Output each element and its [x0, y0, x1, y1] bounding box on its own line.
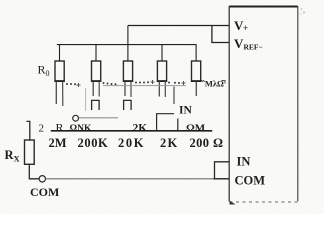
- wire COM rail to box: [46, 178, 230, 180]
- svg-text:IN: IN: [179, 105, 192, 117]
- resistor R03 body: [123, 61, 132, 81]
- resistor R04 body: [157, 61, 166, 81]
- resistor R05 body: [192, 61, 201, 81]
- svg-text:R: R: [38, 63, 46, 77]
- main wire (wiper common rail): [51, 130, 212, 132]
- IC box U1 (DMM chip): [229, 6, 298, 205]
- svg-text:COM: COM: [30, 185, 59, 199]
- svg-text:‵‵MλΩ: ‵‵MλΩ: [200, 79, 224, 89]
- contact staple under R02: [92, 100, 100, 110]
- resistor Rx body: [25, 140, 35, 164]
- svg-text:ΩM: ΩM: [186, 122, 206, 134]
- svg-text:R: R: [56, 121, 64, 135]
- svg-text:0: 0: [46, 69, 50, 78]
- contact prongs under R01: [56, 82, 63, 107]
- svg-text:ΩNK: ΩNK: [70, 124, 92, 134]
- paper noise: [0, 0, 1, 1]
- wire V+ (top horizontal to box): [128, 25, 229, 27]
- svg-text:2M: 2M: [49, 136, 67, 150]
- contact staple under R03: [124, 100, 132, 110]
- gang line (thin grey mechanical link): [103, 85, 186, 87]
- wire Rx bottom lead: [29, 164, 39, 179]
- wire stub R01: [59, 45, 61, 61]
- resistor R01 body: [55, 61, 64, 81]
- svg-text:20K: 20K: [118, 136, 145, 150]
- wire IN bracket at box: [215, 162, 230, 179]
- resistor R02 body: [92, 61, 101, 81]
- svg-text:V: V: [234, 36, 244, 51]
- svg-text:2K: 2K: [133, 122, 148, 134]
- wire VREF- stub to box: [211, 42, 229, 44]
- wire vertical to IN node: [177, 119, 179, 131]
- svg-text:IN: IN: [237, 155, 251, 169]
- switch wiper arm: [79, 117, 118, 119]
- pin label VREF-: [234, 36, 263, 52]
- wire jumper V+ to VREF-: [211, 26, 213, 43]
- gang line plus-marks: [77, 80, 186, 87]
- contact prongs under R03: [125, 82, 131, 98]
- wire selected-contact bracket (2K to main wire): [157, 114, 175, 131]
- svg-text:COM: COM: [235, 174, 266, 188]
- svg-text:200K: 200K: [78, 136, 109, 150]
- svg-text:REF−: REF−: [244, 43, 263, 52]
- gang dotted line segments: [66, 81, 180, 85]
- wire COM bracket segment (darker): [214, 178, 230, 180]
- tick bracket near box edge: [222, 81, 226, 84]
- speckles near box top corner: [300, 8, 305, 15]
- label R0: [38, 63, 50, 79]
- resistor bottom bars (scan emphasis): [55, 80, 202, 82]
- wire bus (tops of R0 resistors): [57, 44, 197, 46]
- label Rx: [5, 148, 21, 164]
- wire stub R02: [95, 45, 97, 61]
- contact prongs under R04: [159, 82, 165, 98]
- wire Rx top lead: [27, 121, 30, 140]
- contact finger right of R04 (selected 2K contact): [173, 87, 175, 105]
- wire stub R03 (continues up to V+ wire): [127, 26, 129, 62]
- pin label V+: [234, 18, 248, 33]
- contact prong under R05: [195, 82, 197, 97]
- wire stub R05: [195, 45, 197, 61]
- svg-text:2: 2: [39, 123, 45, 135]
- svg-text:X: X: [14, 154, 21, 164]
- svg-text:200 Ω: 200 Ω: [190, 136, 224, 150]
- terminal circle COM: [39, 176, 45, 182]
- wire stub R04: [161, 45, 163, 61]
- contact prongs under R02: [93, 82, 99, 97]
- svg-text:+: +: [243, 23, 248, 33]
- faint scan artifact under R02: [85, 88, 87, 111]
- svg-text:2K: 2K: [160, 136, 178, 150]
- switch wiper pivot circle: [73, 115, 79, 121]
